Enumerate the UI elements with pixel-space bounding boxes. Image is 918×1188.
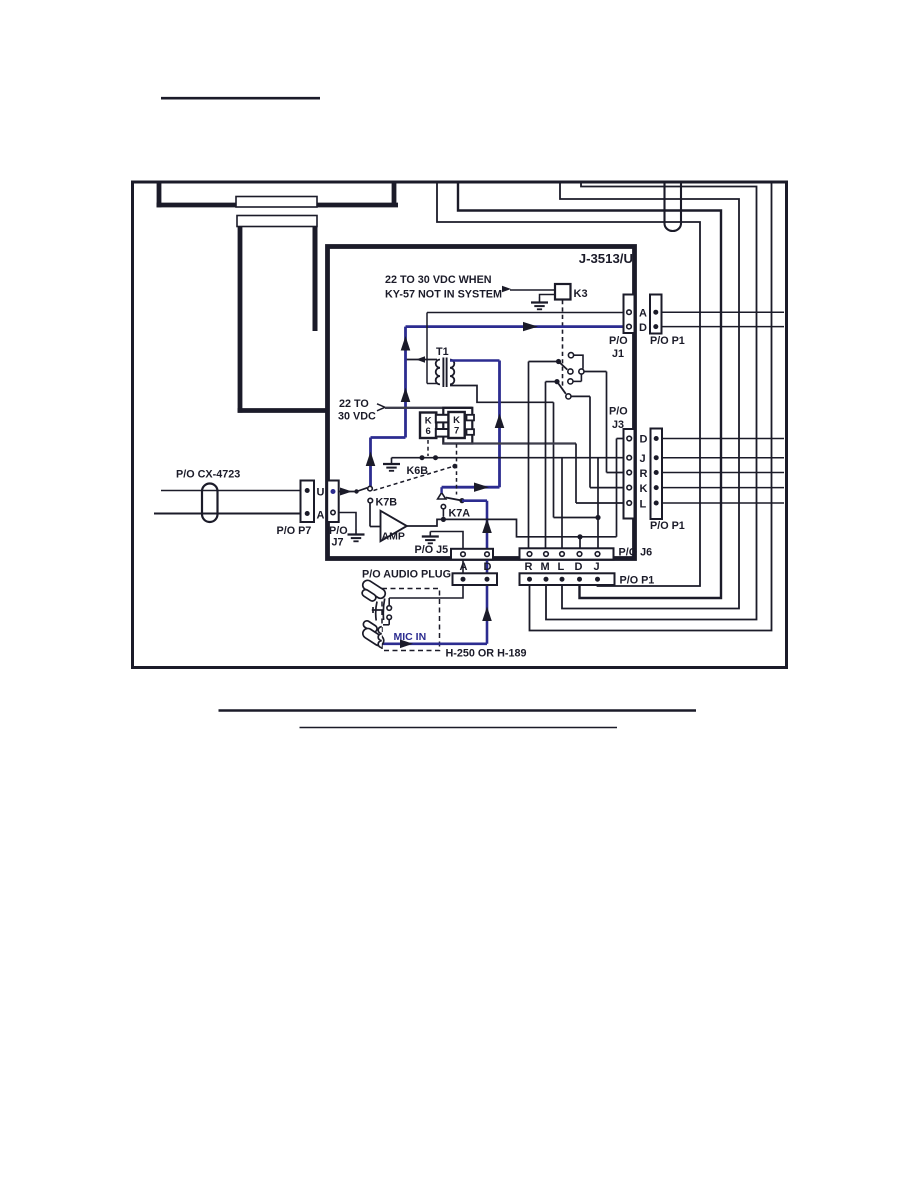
svg-text:J-3513/U: J-3513/U bbox=[579, 251, 633, 266]
blue bus arrow 2 bbox=[401, 388, 411, 403]
K3 actuator dashed line bbox=[562, 300, 564, 388]
wire J7-A to ground bbox=[339, 513, 356, 530]
svg-text:D: D bbox=[639, 322, 647, 334]
arm pivot dot bbox=[354, 489, 358, 493]
wire bundle W4 (P1-M to top) bbox=[546, 184, 757, 620]
blue K7A to J5-D bbox=[462, 499, 487, 502]
S2 contact bbox=[566, 394, 571, 399]
mic contact 1 bbox=[387, 606, 392, 611]
ground below J7 bbox=[355, 530, 357, 534]
arrow on J7-U wire bbox=[340, 488, 352, 496]
K7B linkage dashed bbox=[374, 466, 455, 491]
svg-text:P/O AUDIO PLUG: P/O AUDIO PLUG bbox=[362, 569, 451, 581]
mic element bar bbox=[372, 609, 384, 611]
title underline bbox=[161, 97, 320, 100]
connector P/O J6 bbox=[520, 548, 614, 559]
svg-text:6: 6 bbox=[426, 426, 431, 437]
chassis stub left bbox=[157, 183, 162, 207]
S1 contact D bbox=[568, 379, 573, 384]
K6B contact dot 1 bbox=[420, 455, 425, 460]
svg-text:P/O P1: P/O P1 bbox=[650, 335, 685, 347]
unit J-3513/U outline bbox=[328, 247, 635, 559]
K7B contact bbox=[368, 498, 373, 503]
svg-text:P/O P1: P/O P1 bbox=[650, 520, 685, 532]
wire J1 pin D (blue) bbox=[406, 325, 625, 328]
cable CX-4723 bbox=[202, 484, 218, 523]
connector P/O P1 bottom bbox=[520, 573, 615, 585]
wire J5-A to ground bbox=[430, 532, 463, 586]
K7A lower dot bbox=[441, 517, 446, 522]
connector P/O J5 bbox=[451, 549, 493, 560]
wire bundle W2 (P1-D to top) bbox=[458, 184, 721, 599]
svg-text:K: K bbox=[640, 483, 648, 495]
chevron arrow bbox=[377, 404, 385, 408]
svg-text:R: R bbox=[525, 561, 533, 573]
wire T1 primary left bbox=[426, 313, 428, 384]
wire P1-D to frame bbox=[662, 326, 785, 328]
S1 pivot dot bbox=[556, 359, 561, 364]
junction dot at J6-J riser bbox=[595, 515, 600, 520]
svg-text:J: J bbox=[594, 561, 600, 573]
handset ear cushion bbox=[361, 588, 377, 602]
handset mouthpiece bbox=[361, 627, 386, 648]
K7A arm dot bbox=[459, 498, 464, 503]
wire J1 pin A bbox=[427, 312, 624, 314]
svg-text:J: J bbox=[640, 453, 646, 465]
connector P/O P7 bbox=[301, 481, 315, 523]
svg-text:22 TO: 22 TO bbox=[339, 398, 369, 410]
wire P1 pin J out bbox=[662, 457, 784, 459]
wire S1-C to J3-R bbox=[584, 371, 607, 373]
ground below K3 bbox=[539, 298, 541, 302]
svg-text:P/O CX-4723: P/O CX-4723 bbox=[176, 469, 240, 481]
arrow on blue riser bbox=[495, 414, 505, 429]
S2 arm bbox=[557, 382, 566, 394]
T1 secondary winding bbox=[450, 360, 454, 385]
wire AMP output bbox=[407, 519, 444, 526]
K7 tab lower bbox=[467, 429, 475, 435]
K7 actuator dashed bbox=[456, 444, 458, 495]
S1 C-D link bbox=[573, 380, 581, 382]
svg-text:L: L bbox=[558, 561, 565, 573]
svg-text:M: M bbox=[541, 561, 550, 573]
wire A bbox=[154, 513, 301, 515]
K7B upper contact bbox=[368, 486, 373, 491]
connector P/O P1 mid bbox=[651, 429, 663, 520]
wire P1 pin R out bbox=[662, 472, 784, 474]
svg-text:K7B: K7B bbox=[376, 497, 398, 509]
svg-text:P/O J6: P/O J6 bbox=[619, 547, 653, 559]
wire audio-A to mic bbox=[389, 585, 463, 598]
arrow into blue bus bbox=[416, 356, 425, 363]
arrow on audio-D riser bbox=[482, 607, 492, 622]
mic contact stem bbox=[388, 620, 390, 625]
svg-text:P/O: P/O bbox=[609, 406, 628, 418]
wire S2 to J6-M bbox=[546, 381, 558, 383]
wire below K7 to J3-L riser bbox=[443, 442, 576, 444]
wire to J6-J junction bbox=[553, 402, 555, 517]
connector P/O P1 upper bbox=[650, 295, 662, 334]
linkage junction dot bbox=[452, 464, 457, 469]
riser J6-L bbox=[561, 458, 563, 553]
arrow to K3 bbox=[502, 286, 511, 293]
chassis stub right bbox=[392, 183, 397, 205]
K7A contact stem bbox=[442, 509, 444, 517]
svg-text:R: R bbox=[640, 468, 648, 480]
svg-text:A: A bbox=[460, 561, 468, 573]
chassis bottom rail bbox=[238, 408, 329, 413]
wire T1 secondary bottom bbox=[450, 386, 554, 403]
T1 primary winding bbox=[436, 360, 440, 385]
arrow on J5-D riser bbox=[482, 519, 492, 534]
blue horizontal to riser bbox=[442, 486, 500, 489]
audio plug dashed box bbox=[382, 589, 440, 651]
blue bus vertical bbox=[404, 327, 407, 438]
svg-text:30 VDC: 30 VDC bbox=[338, 411, 376, 423]
svg-text:K3: K3 bbox=[574, 288, 588, 300]
svg-text:K: K bbox=[425, 416, 432, 427]
ground near J5 bbox=[429, 532, 431, 536]
chassis slot B bbox=[237, 216, 317, 227]
chassis left drop bbox=[238, 227, 243, 413]
S1 contact C bbox=[579, 369, 584, 374]
arrow on blue horizontal bbox=[474, 483, 489, 492]
riser J6-J bbox=[597, 458, 599, 553]
svg-text:7: 7 bbox=[454, 426, 459, 437]
svg-text:A: A bbox=[639, 308, 647, 320]
blue bus to K7B bbox=[369, 438, 372, 487]
svg-text:P/O: P/O bbox=[609, 335, 628, 347]
wire K7B to AMP bbox=[369, 503, 371, 527]
connector P/O J1 bbox=[624, 295, 635, 334]
svg-text:T1: T1 bbox=[436, 346, 449, 358]
svg-text:H-250 OR H-189: H-250 OR H-189 bbox=[446, 648, 527, 660]
wire S2 to J3-K bbox=[571, 395, 590, 397]
wire K7A to J6-D/J3-D bbox=[443, 519, 616, 536]
connector P/O J3 bbox=[624, 429, 635, 519]
K6B contact dot 2 bbox=[433, 455, 438, 460]
T1 core bbox=[442, 358, 444, 388]
svg-text:P/O: P/O bbox=[329, 525, 348, 537]
wire T1 secondary top (blue) bbox=[450, 359, 500, 361]
mic contact 2 bbox=[387, 615, 392, 620]
blue bus arrow 3 bbox=[366, 452, 376, 467]
svg-text:J3: J3 bbox=[612, 419, 624, 431]
chassis slot A bbox=[236, 197, 317, 208]
wire P1 pin D out bbox=[662, 438, 784, 440]
svg-text:K6B: K6B bbox=[407, 465, 429, 477]
svg-text:D: D bbox=[575, 561, 583, 573]
blue from T1 to K7A arm bbox=[440, 487, 442, 493]
svg-text:KY-57 NOT IN SYSTEM: KY-57 NOT IN SYSTEM bbox=[385, 289, 502, 301]
wire bundle W1 (J6-J to top) bbox=[437, 184, 700, 587]
blue mic wire bbox=[383, 642, 488, 645]
junction dot above J6-D bbox=[577, 534, 582, 539]
S2 pivot dot bbox=[554, 379, 559, 384]
chassis right drop bbox=[313, 227, 318, 332]
svg-text:MIC IN: MIC IN bbox=[394, 631, 427, 643]
K7A contact bbox=[441, 504, 445, 508]
svg-text:D: D bbox=[484, 561, 492, 573]
K7 socket outline bbox=[443, 408, 472, 444]
handset handle bbox=[376, 599, 385, 621]
svg-text:L: L bbox=[640, 499, 647, 511]
svg-text:U: U bbox=[317, 487, 325, 499]
svg-text:P/O J5: P/O J5 bbox=[415, 544, 449, 556]
connector audio plug A-D bbox=[453, 573, 498, 585]
wire P1-A to frame bbox=[662, 311, 785, 313]
svg-text:J1: J1 bbox=[612, 348, 624, 360]
ground at K6B bbox=[391, 459, 393, 463]
blue bus elbow bbox=[371, 436, 406, 439]
caption rule 2 bbox=[300, 727, 618, 729]
svg-text:P/O P7: P/O P7 bbox=[277, 525, 312, 537]
arrow on D wire bbox=[523, 322, 538, 331]
svg-text:K: K bbox=[453, 415, 460, 426]
K6-K7 bridge lower bbox=[436, 429, 449, 437]
wire P1 pin L out bbox=[662, 502, 784, 504]
svg-text:D: D bbox=[640, 434, 648, 446]
S1 contact A bbox=[568, 353, 573, 358]
K7A arm triangle bbox=[438, 493, 446, 499]
wire riser to J3-D bbox=[616, 439, 618, 537]
wire 22-30VDC bbox=[385, 407, 472, 409]
wire drop to J6-D bbox=[579, 537, 581, 553]
caption rule 1 bbox=[219, 709, 697, 712]
wire K6B to J3-J bbox=[392, 457, 625, 459]
handset mouth cushion bbox=[362, 619, 378, 633]
connector P/O J7 bbox=[327, 481, 339, 523]
handset cord loops bbox=[378, 627, 382, 648]
wire S1 to J6-R bbox=[529, 361, 559, 363]
K7 tab upper bbox=[467, 415, 475, 421]
svg-text:K7A: K7A bbox=[449, 508, 471, 520]
K6B ground stub bbox=[391, 458, 393, 460]
svg-text:P/O P1: P/O P1 bbox=[620, 575, 655, 587]
S1 contact B bbox=[568, 369, 573, 374]
wire note to K3 bbox=[510, 289, 555, 291]
riser to J3-L bbox=[575, 444, 577, 504]
K6 actuator dashed bbox=[427, 440, 429, 456]
relay K6 bbox=[420, 413, 436, 439]
K7A arm link bbox=[446, 498, 462, 501]
arrow on mic wire bbox=[400, 640, 413, 649]
figure frame bbox=[133, 182, 787, 668]
svg-text:AMP: AMP bbox=[382, 531, 405, 543]
K3 ground wire bbox=[540, 295, 556, 298]
wire bundle W3 (P1-L to top) bbox=[560, 184, 739, 609]
wire U bbox=[161, 490, 301, 492]
wire J7-U to arm bbox=[339, 491, 357, 493]
S1 A-C link bbox=[574, 355, 583, 369]
blue bus arrow 1 bbox=[401, 336, 411, 351]
cable loop grommet bbox=[665, 183, 682, 231]
op-amp AMP bbox=[381, 511, 407, 541]
relay K3 bbox=[555, 284, 571, 300]
K6-K7 bridge upper bbox=[436, 415, 449, 423]
blue riser from K7A bbox=[498, 361, 501, 488]
wire P1 pin K out bbox=[662, 487, 784, 489]
handset earpiece bbox=[361, 578, 387, 600]
wire T1 primary top bbox=[406, 359, 438, 361]
svg-text:A: A bbox=[317, 510, 325, 522]
S1 arm bbox=[559, 362, 568, 370]
chassis top rail bbox=[157, 203, 399, 208]
svg-text:J7: J7 bbox=[332, 537, 344, 549]
relay K7 bbox=[448, 412, 464, 438]
switch arm bbox=[357, 488, 368, 492]
svg-text:22 TO 30 VDC WHEN: 22 TO 30 VDC WHEN bbox=[385, 274, 492, 286]
wire bundle W5 (P1-R to top) bbox=[530, 184, 772, 631]
